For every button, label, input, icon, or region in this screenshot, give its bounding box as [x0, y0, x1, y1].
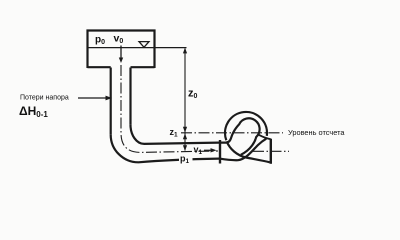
- tank outline: [88, 31, 155, 69]
- v0 velocity arrow: [119, 46, 123, 64]
- pipe elbow inner wall + horizontal pipe top wall: [131, 125, 220, 144]
- head loss arrow: [78, 96, 112, 101]
- svg-text:v0: v0: [114, 33, 124, 46]
- svg-text:Уровень отсчета: Уровень отсчета: [288, 128, 345, 137]
- discharge cone top edge: [258, 135, 271, 140]
- svg-text:ΔH0-1: ΔH0-1: [19, 104, 48, 119]
- label dH0-1: [19, 104, 48, 119]
- pump inlet bottom wall sweeping to discharge top: [220, 139, 267, 161]
- discharge centerline (dash-dot): [253, 150, 289, 152]
- label z1: [170, 127, 179, 139]
- label p0: [95, 35, 105, 47]
- label Uroven otscheta: [288, 128, 345, 137]
- label p1 (on bottom wall, white backing): [179, 154, 193, 166]
- water level symbol (nabla): [139, 42, 149, 48]
- water surface line: [88, 47, 187, 49]
- svg-text:p0: p0: [95, 35, 105, 47]
- vertical pipe left wall: [110, 68, 112, 135]
- pump inner spiral (hook over impeller eye): [220, 118, 260, 154]
- pump suction flange: [219, 140, 221, 164]
- svg-text:z1: z1: [170, 127, 179, 139]
- pump discharge flange: [270, 139, 272, 164]
- label v0: [114, 33, 124, 46]
- pump volute outer casing circle: [225, 112, 267, 140]
- svg-text:v1: v1: [194, 145, 203, 157]
- z dimension line: [183, 48, 187, 151]
- pipe centerline (dash-dot): [121, 65, 218, 152]
- label v1: [194, 145, 203, 157]
- pipe elbow outer wall: [111, 135, 219, 163]
- datum line (dash-dot): [181, 132, 283, 134]
- label z0: [188, 88, 198, 101]
- label Poteri napora: [20, 95, 69, 102]
- v1 velocity arrow: [204, 148, 217, 152]
- svg-text:z0: z0: [188, 88, 198, 101]
- pump volute bottom sweep: [227, 141, 270, 162]
- svg-text:Потери напора: Потери напора: [20, 95, 69, 102]
- vertical pipe right wall: [129, 68, 131, 125]
